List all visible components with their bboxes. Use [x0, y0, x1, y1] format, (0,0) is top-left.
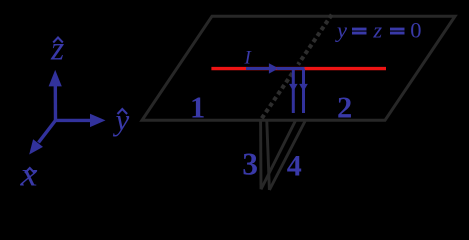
x axis — [39, 120, 56, 142]
descending current arrowhead right — [299, 84, 308, 91]
wire after arrow — [277, 67, 305, 70]
wire current segment (blue) — [246, 67, 270, 70]
svg-text:x: x — [19, 157, 37, 194]
folded sheet edge L3 — [261, 121, 295, 189]
descending current wire right — [302, 69, 305, 113]
fold crease (dotted line, below wire) — [262, 73, 293, 118]
z axis arrowhead — [49, 70, 62, 87]
plane z=0 (parallelogram outline) — [142, 16, 455, 120]
svg-text:1: 1 — [190, 91, 205, 125]
svg-text:4: 4 — [287, 150, 302, 183]
second equals sign — [390, 28, 405, 31]
first equals sign — [352, 28, 367, 31]
descending current wire left — [292, 69, 295, 113]
folded sheet edge L2 — [267, 121, 270, 190]
fold crease (dotted line) — [298, 15, 332, 65]
svg-text:2: 2 — [337, 91, 352, 125]
z axis — [54, 84, 58, 120]
svg-text:y: y — [113, 102, 130, 137]
folded sheet edge L1 — [259, 121, 262, 189]
y axis — [56, 119, 92, 122]
folded sheet edge L4 — [269, 121, 305, 190]
y axis arrowhead — [90, 114, 106, 127]
svg-text:3: 3 — [242, 147, 258, 182]
svg-text:z: z — [50, 31, 64, 68]
x axis arrowhead — [29, 139, 43, 154]
current line y=z=0 (red) — [211, 67, 386, 70]
wire arrowhead — [269, 63, 279, 73]
descending current arrowhead left — [289, 84, 298, 91]
